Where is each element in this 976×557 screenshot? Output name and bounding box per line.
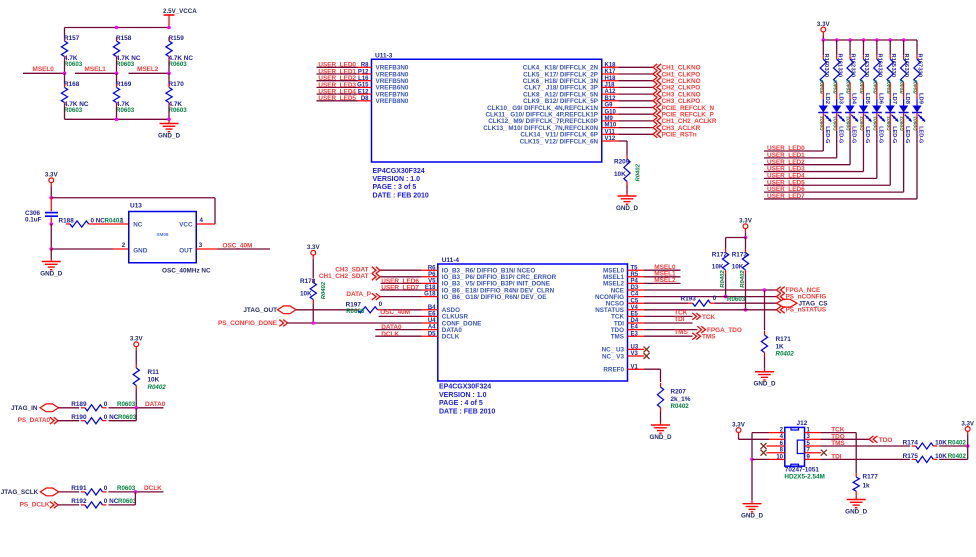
svg-text:NC_ V3: NC_ V3 (602, 353, 625, 360)
wire net USER_LED3 (317, 86, 358, 88)
pin lead R164 to LD6 (876, 87, 878, 100)
svg-text:C4: C4 (631, 292, 639, 298)
pin stub pin D3 (628, 289, 645, 291)
resistor R188 (66, 221, 93, 227)
svg-text:R177: R177 (863, 473, 879, 480)
svg-text:R171: R171 (776, 336, 792, 343)
wire 3.3V to LED rail (822, 36, 824, 41)
svg-text:M9: M9 (605, 116, 614, 122)
junction LED rail col 1 (822, 38, 826, 42)
svg-text:10K: 10K (614, 171, 626, 178)
port chevron TCK (692, 313, 700, 320)
svg-text:K17: K17 (605, 69, 617, 75)
svg-text:0 NC: 0 NC (104, 498, 119, 505)
svg-text:2k_1%: 2k_1% (671, 396, 691, 403)
svg-text:R0603: R0603 (169, 61, 188, 68)
svg-text:TCK: TCK (702, 314, 716, 321)
svg-text:LED-G: LED-G (851, 126, 857, 143)
wire rail to R163 (862, 40, 864, 55)
svg-text:D4: D4 (631, 318, 639, 324)
wire R192 to DCLK (109, 504, 136, 506)
svg-text:330: 330 (917, 68, 923, 78)
wire net USER_LED2 (317, 80, 358, 82)
svg-text:R159: R159 (169, 35, 185, 42)
svg-text:R0402: R0402 (776, 351, 795, 358)
svg-text:V11: V11 (605, 129, 616, 135)
wire DATA_P to DEV_OE pin (380, 296, 422, 298)
resistor R172 (723, 249, 729, 275)
port chevron CH3_CLKPO (653, 97, 661, 104)
wire 3.3V to R178 (312, 259, 314, 278)
port chevron CH1_CH2_SDAT (372, 273, 380, 280)
wire rail to R161 (836, 40, 838, 55)
wire rail to R162 (849, 40, 851, 55)
wire PS_DATA0 to R190 (58, 420, 79, 422)
svg-text:R163: R163 (863, 54, 869, 68)
pin stub VREFB4N0 pin P12 (358, 73, 372, 75)
wire R174 to 3.3V (939, 445, 968, 447)
svg-text:R0603: R0603 (727, 296, 746, 303)
wire 3.3V to rail (50, 186, 52, 197)
svg-text:DATE : FEB 2010: DATE : FEB 2010 (373, 192, 429, 199)
svg-text:330: 330 (903, 68, 909, 78)
svg-text:JTAG_IN: JTAG_IN (11, 405, 38, 412)
port chevron CH2_CLKPO (653, 84, 661, 91)
svg-text:LD9: LD9 (918, 93, 924, 105)
wire OSC_40M to CLKUSR pin (379, 315, 422, 317)
pin stub pin K17 (602, 73, 619, 75)
resistor R169 (113, 84, 119, 107)
wire net MSEL1 stub (75, 72, 117, 74)
wire bottom rail (65, 118, 170, 120)
oscillator U13 body (129, 212, 197, 263)
pin stub J12 pin 10 (769, 458, 785, 460)
svg-text:3: 3 (199, 242, 203, 249)
resistor R174 (912, 443, 938, 449)
svg-text:U11-4: U11-4 (442, 257, 460, 264)
svg-text:H18: H18 (605, 76, 617, 82)
diode lead (916, 99, 918, 106)
svg-text:GND_D: GND_D (616, 205, 638, 212)
svg-text:R162: R162 (850, 54, 856, 68)
pin lead R161 to LD3 (836, 87, 838, 100)
svg-text:RREF0: RREF0 (603, 367, 624, 374)
svg-text:G10: G10 (605, 109, 617, 115)
port chevron TDO (869, 436, 877, 443)
wire rail to R167 (916, 40, 918, 55)
pin stub VREFB7N0 pin E12 (358, 93, 372, 95)
svg-text:EP4CGX30F324: EP4CGX30F324 (373, 168, 425, 175)
wire R193 to JTAG_CS (715, 302, 777, 304)
resistor R165 (887, 55, 893, 86)
chip info EP4CGX30F324 page 4 (439, 384, 495, 416)
svg-text:J18: J18 (605, 83, 616, 89)
wire USER_LED5 (764, 184, 890, 186)
svg-text:0.1uF: 0.1uF (25, 216, 42, 223)
svg-text:P6: P6 (428, 272, 436, 278)
svg-text:R174: R174 (903, 440, 919, 447)
svg-text:GND_D: GND_D (649, 434, 671, 441)
connector J12 body (785, 427, 805, 466)
wire net CH1_CLKNO (618, 66, 653, 68)
svg-text:R6: R6 (428, 265, 436, 271)
wire TCK from pin 1 (821, 432, 857, 434)
svg-text:R0603: R0603 (116, 107, 135, 114)
wire R178 to CONF_DONE net (312, 304, 314, 324)
resistor R175 (912, 456, 938, 462)
pin stub pin D5 (422, 335, 438, 337)
wire VCC drop (214, 198, 216, 224)
svg-text:SM08: SM08 (156, 232, 168, 237)
svg-text:U3: U3 (631, 345, 639, 351)
resistor R189 (81, 405, 107, 411)
pin stub pin A12 (602, 93, 619, 95)
svg-text:TMS: TMS (702, 334, 716, 341)
pin lead LD8 cathode (903, 113, 905, 131)
pin stub pin E18 (422, 289, 438, 291)
svg-text:U11-3: U11-3 (375, 53, 393, 60)
wire LD8 drop (903, 131, 905, 192)
pin stub J12 pin 5 (805, 445, 821, 447)
svg-text:R0603: R0603 (118, 498, 137, 505)
wire CH1_CH2_SDAT to CRC_ERROR pin (380, 276, 422, 278)
svg-text:HD2X5-2.54M: HD2X5-2.54M (784, 473, 825, 480)
resistor R159 (166, 37, 172, 61)
pin stub U13 NC pin 1 (93, 223, 129, 225)
wire USER_LED4 (764, 177, 877, 179)
svg-text:OSC_40M: OSC_40M (380, 309, 410, 316)
svg-text:LD7: LD7 (891, 93, 897, 104)
LED LD8 (899, 106, 912, 122)
svg-text:D3: D3 (631, 285, 639, 291)
svg-text:R158: R158 (116, 35, 132, 42)
junction MSEL0 (63, 72, 67, 76)
svg-text:LD8: LD8 (904, 93, 910, 105)
svg-text:GND: GND (133, 248, 147, 255)
wire net CH1_CH2_ACLKR (618, 120, 653, 122)
wire net PCIE_REFCLK_P (618, 113, 653, 115)
power symbol 3.3V (pull-ups) (961, 420, 975, 435)
svg-text:C5: C5 (631, 298, 639, 304)
wire net CH3_CLKNO (618, 93, 653, 95)
port JTAG_CS (777, 299, 798, 307)
svg-text:R0402: R0402 (846, 79, 852, 94)
svg-text:LED-G: LED-G (891, 126, 897, 143)
port chevron PS_nSTATUS (777, 306, 785, 313)
svg-text:R190: R190 (71, 414, 87, 421)
svg-text:DATE : FEB 2010: DATE : FEB 2010 (439, 408, 495, 415)
wire V12 drop (626, 141, 628, 155)
pin stub J12 pin 7 (805, 452, 821, 454)
svg-text:330: 330 (850, 68, 856, 78)
wire net MSEL1 stub (644, 276, 681, 278)
svg-text:A12: A12 (605, 89, 617, 95)
svg-text:LED-G: LED-G (837, 126, 843, 143)
wire MSEL row to R169 (116, 73, 118, 83)
wire net MSEL2 stub (129, 72, 170, 74)
resistor R197 (354, 307, 382, 313)
pin stub VREFB8N0 pin D8 (358, 100, 372, 102)
svg-text:R161: R161 (836, 54, 842, 68)
resistor R192 (81, 502, 107, 508)
port chevron PS_DATA0 (50, 417, 58, 424)
svg-text:LD5: LD5 (864, 93, 870, 105)
wire VCC top rail (51, 197, 215, 199)
wire net USER_LED4 (317, 93, 358, 95)
port chevron CH1_CH2_ACLKR (653, 118, 661, 125)
power symbol 3.3V (R11) (130, 336, 144, 351)
svg-text:VREFB8N0: VREFB8N0 (376, 98, 409, 105)
pin stub pin P6 (422, 276, 438, 278)
svg-text:R0402: R0402 (899, 79, 905, 94)
resistor R209 (624, 155, 630, 186)
svg-text:R0603: R0603 (64, 61, 83, 68)
svg-text:10K: 10K (300, 290, 312, 297)
port chevron CH3_SDAT (372, 267, 380, 274)
svg-text:R0402: R0402 (859, 79, 865, 94)
resistor R173 (742, 249, 748, 275)
port chevron FPGA_TDO (697, 326, 705, 333)
svg-text:MSEL1: MSEL1 (85, 66, 107, 73)
port chevron PCIE_RSTn (653, 131, 661, 138)
wire DATA0 net (109, 407, 164, 409)
port chevron CH1_CLKPO (653, 71, 661, 78)
svg-text:B12: B12 (605, 96, 617, 102)
resistor R157 (61, 37, 67, 61)
pin lead R167 to LD9 (916, 87, 918, 100)
LED LD5 (858, 106, 871, 122)
svg-text:R165: R165 (890, 54, 896, 68)
svg-text:R0603: R0603 (64, 107, 83, 114)
pin lead LD3 cathode (836, 113, 838, 131)
svg-text:TMS: TMS (674, 329, 688, 336)
svg-text:R209: R209 (614, 159, 630, 166)
svg-text:R0402: R0402 (886, 79, 892, 94)
wire LD7 drop (889, 131, 891, 185)
svg-text:R166: R166 (903, 54, 909, 68)
pin stub U13 GND pin 2 (113, 248, 129, 250)
diode lead (822, 99, 824, 106)
wire net USER_LED5 (317, 100, 358, 102)
pin stub J12 pin 4 (769, 438, 785, 440)
wire net MSEL2 stub (644, 282, 681, 284)
resistor R158 (113, 37, 119, 61)
port JTAG_OUT (278, 306, 297, 314)
svg-text:330: 330 (836, 68, 842, 78)
pin stub pin U3 (628, 348, 645, 350)
svg-text:E3: E3 (631, 331, 639, 337)
diode lead (836, 99, 838, 106)
wire rail to R165 (889, 40, 891, 55)
svg-text:R192: R192 (71, 498, 87, 505)
wire TCK (644, 315, 693, 317)
junction 3.3V rail / VCC feed (49, 196, 53, 200)
svg-text:E5: E5 (631, 312, 639, 318)
svg-text:VERSION : 1.0: VERSION : 1.0 (439, 392, 487, 399)
wire 3.3V down (745, 232, 747, 237)
wire MSEL row to R168 (64, 73, 66, 83)
no-connect X J12 pin 8 (761, 450, 767, 456)
LED LD9 (912, 106, 925, 122)
port chevron PCIE_REFCLK_N (653, 104, 661, 111)
svg-text:1K: 1K (776, 343, 785, 350)
svg-text:0: 0 (379, 301, 383, 308)
resistor R161 (834, 55, 840, 86)
svg-text:R164: R164 (876, 54, 882, 68)
wire net PCIE_RSTn (618, 133, 653, 135)
wire USER_LED2 (764, 164, 850, 166)
svg-text:A4: A4 (428, 325, 436, 331)
pin stub pin V11 (602, 133, 619, 135)
wire TMS (644, 335, 693, 337)
svg-text:R8: R8 (361, 63, 369, 69)
resistor R160 (820, 55, 826, 86)
svg-text:LD4: LD4 (851, 93, 857, 105)
pin stub pin E6 (422, 315, 438, 317)
wire GND row to U13 (51, 248, 112, 250)
wire USER_LED6 (381, 282, 422, 284)
svg-text:R168: R168 (64, 81, 80, 88)
wire rail to R164 (876, 40, 878, 55)
wire USER_LED6 (764, 191, 904, 193)
pin stub pin B12 (602, 100, 619, 102)
svg-text:R0603: R0603 (346, 308, 365, 315)
wire up to DCLK junction (134, 492, 136, 505)
wire branch to R172 (726, 237, 746, 239)
resistor R190 (81, 418, 107, 424)
svg-text:TDI: TDI (831, 453, 842, 460)
svg-text:LD2: LD2 (824, 93, 830, 104)
svg-text:R167: R167 (917, 54, 923, 68)
resistor R163 (860, 55, 866, 86)
wire R209 to ground (626, 186, 628, 194)
svg-text:R188: R188 (59, 217, 75, 224)
wire CH3_SDAT to NCEO pin (380, 269, 422, 271)
svg-text:R172: R172 (712, 251, 728, 258)
svg-text:4: 4 (200, 217, 204, 224)
wire TDI (644, 322, 693, 324)
pin lead R166 to LD8 (903, 87, 905, 100)
pin lead LD6 cathode (876, 113, 878, 131)
resistor R164 (874, 55, 880, 86)
svg-text:V1: V1 (631, 364, 639, 370)
wire R175 right (939, 458, 968, 460)
pin stub pin U4 (422, 322, 438, 324)
svg-text:0 NC: 0 NC (91, 217, 106, 224)
wire R169 to bottom rail (116, 107, 118, 120)
junction pin 10 / gnd rail (750, 458, 754, 462)
wire LD2 drop (822, 131, 824, 151)
wire net CH2_CLKNO (618, 80, 653, 82)
svg-text:2.5V_VCCA: 2.5V_VCCA (163, 8, 197, 15)
svg-text:CLK15_ V12/ DIFFCLK_6N: CLK15_ V12/ DIFFCLK_6N (520, 138, 599, 145)
svg-text:P12: P12 (358, 69, 369, 75)
svg-text:DATA0: DATA0 (145, 401, 166, 408)
svg-text:DCLK: DCLK (144, 485, 162, 492)
junction top rail / R159 (167, 26, 171, 30)
resistor R178 (310, 279, 316, 304)
wire R11 to DATA0 net (135, 390, 137, 408)
svg-text:PS_CONFIG_DONE: PS_CONFIG_DONE (218, 320, 278, 327)
wire LD9 drop (916, 131, 918, 199)
svg-text:OUT: OUT (179, 248, 192, 255)
wire LD5 drop (862, 131, 864, 172)
svg-text:OSC_40MHz NC: OSC_40MHz NC (162, 268, 211, 275)
wire PS_DCLK to R192 (58, 504, 79, 506)
svg-text:USER_LED7: USER_LED7 (381, 285, 419, 292)
wire JTAG_OUT to R197 (296, 309, 354, 311)
pin stub J12 pin 1 (805, 432, 821, 434)
svg-text:JTAG_SCLK: JTAG_SCLK (1, 489, 39, 496)
svg-text:R189: R189 (71, 401, 87, 408)
svg-text:IO_B6_ G18/ DIFFIO_R6N/ DEV_: IO_B6_ G18/ DIFFIO_R6N/ DEV_OE (442, 294, 547, 301)
svg-text:R11: R11 (148, 369, 160, 376)
LED LD3 (832, 106, 845, 122)
no-connect X J12 pin 6 (761, 443, 767, 449)
wire R171 to ground (764, 357, 766, 369)
svg-text:1: 1 (120, 217, 124, 224)
junction MSEL1 (115, 72, 119, 76)
svg-text:GND_D: GND_D (845, 508, 867, 515)
pin stub pin V4 (628, 309, 645, 311)
wire V12 to R209 (618, 140, 627, 142)
svg-text:330: 330 (863, 68, 869, 78)
resistor R170 (166, 84, 172, 107)
diode lead (889, 99, 891, 106)
junction MSEL2 (167, 72, 171, 76)
wire TDO from pin 3 (821, 438, 870, 440)
svg-text:R0603: R0603 (116, 61, 135, 68)
wire net PCIE_REFCLK_N (618, 107, 653, 109)
svg-text:MSEL2: MSEL2 (137, 66, 159, 73)
pin stub pin V5 (422, 282, 438, 284)
svg-text:R0603: R0603 (117, 485, 136, 492)
port chevron FPGA_NCE (777, 287, 785, 294)
port chevron CH2_CLKNO (653, 77, 661, 84)
junction R174 / R175 3.3V (966, 444, 970, 448)
svg-text:R0603: R0603 (118, 414, 137, 421)
svg-text:R0402: R0402 (148, 384, 167, 391)
svg-text:R175: R175 (903, 453, 919, 460)
svg-text:VCC: VCC (179, 221, 193, 228)
pin stub J12 pin 8 (767, 452, 785, 454)
svg-text:330: 330 (876, 68, 882, 78)
wire col1 to R157 (64, 28, 66, 38)
wire MSEL row to R170 (168, 73, 170, 83)
pin lead LD4 cathode (849, 113, 851, 131)
junction top rail / R158 (115, 26, 119, 30)
wire PS_CONFIG_DONE to CONF_DONE pin (288, 322, 422, 324)
svg-text:1k: 1k (863, 483, 871, 490)
resistor R193 (689, 300, 715, 306)
wire USER_LED7 (381, 289, 422, 291)
wire R158 to MSEL row (116, 61, 118, 74)
svg-text:V3: V3 (631, 351, 639, 357)
svg-text:LD3: LD3 (837, 93, 843, 105)
pin stub VREFB3N0 pin R8 (358, 66, 372, 68)
wire NCONFIG to PS_nCONFIG (644, 296, 777, 298)
port chevron PS_DCLK (50, 502, 58, 509)
wire R190 to DATA0 (109, 420, 137, 422)
pin stub pin E4 (628, 329, 645, 331)
svg-text:10K: 10K (732, 264, 744, 271)
svg-text:V4: V4 (631, 305, 639, 311)
pin stub U13 VCC pin 4 (196, 223, 215, 225)
wire R170 to bottom rail (168, 107, 170, 120)
svg-text:V5: V5 (428, 279, 436, 285)
pin stub pin E5 (628, 315, 645, 317)
wire USER_LED0 (764, 150, 823, 152)
